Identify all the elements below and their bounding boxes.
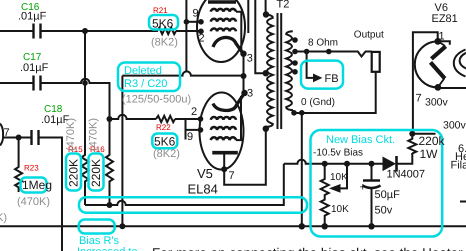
svg-text:7: 7 xyxy=(229,170,235,182)
svg-text:-10.5v Bias: -10.5v Bias xyxy=(313,148,363,159)
node cathode upper pin3 xyxy=(240,51,246,57)
node primary top xyxy=(263,11,269,17)
svg-text:R21: R21 xyxy=(153,6,168,15)
wire deleted component column xyxy=(121,76,123,227)
grid g3 upper xyxy=(211,9,236,12)
transformer T2 primary winding xyxy=(266,15,273,127)
svg-text:10K: 10K xyxy=(330,172,348,183)
svg-text:Output: Output xyxy=(354,30,384,41)
capacitor C16 xyxy=(34,24,41,39)
node gnd riser top xyxy=(299,110,305,116)
node output junction xyxy=(326,49,332,55)
svg-text:9: 9 xyxy=(193,8,199,20)
transformer T2 secondary winding xyxy=(286,31,293,110)
node wiper rail xyxy=(344,161,350,167)
node tap 8ohm xyxy=(292,49,298,55)
capacitor 50uF xyxy=(371,164,373,180)
svg-text:For more on connecting the bia: For more on connecting the bias ckt, see… xyxy=(152,246,463,251)
svg-text:(8K2): (8K2) xyxy=(151,37,178,49)
node primary center tap xyxy=(263,70,269,76)
node pin2 upper xyxy=(198,29,204,35)
EZ81 plate 1 stub xyxy=(438,41,445,46)
highlight bias Rs segment xyxy=(79,220,115,234)
wire B+ EZ81 pin1 to 220k xyxy=(413,32,438,134)
grid g1 lower xyxy=(211,117,236,120)
svg-text:220k: 220k xyxy=(419,134,446,148)
wire R22 to pin2 lower xyxy=(175,118,201,120)
wire R21 to pin2 xyxy=(176,30,201,32)
svg-text:300v: 300v xyxy=(443,120,466,132)
svg-text:10K: 10K xyxy=(331,204,349,215)
plate upper xyxy=(208,0,236,4)
node C17 column junction xyxy=(82,80,88,86)
cathode upper xyxy=(213,37,243,53)
svg-text:(470K): (470K) xyxy=(88,118,100,151)
node EZ81 plate pin1 xyxy=(434,38,441,45)
svg-text:R3 / C20: R3 / C20 xyxy=(124,78,167,90)
wire deleted R3 C20 to cathode node xyxy=(122,71,243,75)
node pin7 lower xyxy=(221,166,227,172)
svg-text:1: 1 xyxy=(439,31,445,43)
tube V5 envelope lower xyxy=(200,93,244,170)
wire bias rail xyxy=(284,160,352,164)
node grid2 junction xyxy=(107,116,113,122)
wire g3 to cathode upper xyxy=(236,12,241,53)
node pin9 lower xyxy=(198,127,204,133)
node screen junction upper xyxy=(184,19,190,25)
svg-text:7: 7 xyxy=(4,127,10,139)
svg-text:0 (Gnd): 0 (Gnd) xyxy=(301,97,335,108)
box 5K6 R22 xyxy=(152,134,177,149)
resistor R21 xyxy=(157,28,176,34)
left edge tube V? envelope xyxy=(0,124,3,146)
grid g1 upper xyxy=(211,28,236,31)
svg-text:220K: 220K xyxy=(67,159,81,187)
svg-text:R23: R23 xyxy=(24,164,39,173)
node cathode lower pin3 xyxy=(241,90,247,96)
wire plate lower to primary bottom xyxy=(224,129,266,185)
wire EZ81 pin7 out xyxy=(438,86,466,89)
wire jack sleeve to 0 tap xyxy=(294,72,376,113)
svg-text:(8K2): (8K2) xyxy=(153,148,180,160)
wire grid2 with hop over deleted column xyxy=(110,115,157,119)
wire EZ81 pin1 heater xyxy=(438,41,450,45)
capacitor C18 xyxy=(32,130,39,145)
node deleted column ground xyxy=(119,223,125,229)
wire center tap feed xyxy=(255,0,265,73)
resistor R16 220K column xyxy=(106,119,113,205)
svg-text:Filam: Filam xyxy=(451,160,466,172)
wire screen upper pin9 xyxy=(186,21,201,23)
EZ81 plate 2 stub xyxy=(438,78,444,87)
svg-text:(470K): (470K) xyxy=(17,196,50,208)
box new bias ckt xyxy=(311,130,443,237)
resistor R15 220K column xyxy=(82,31,89,205)
svg-text:.01µF: .01µF xyxy=(18,11,47,23)
svg-text:2: 2 xyxy=(199,33,205,45)
highlight bias wire xyxy=(79,197,307,212)
wire C16 input xyxy=(0,30,33,32)
transformer core xyxy=(277,13,279,129)
EZ81 plate 1 xyxy=(431,46,445,59)
svg-text:300v: 300v xyxy=(425,97,449,109)
svg-text:Increased to: Increased to xyxy=(77,246,138,251)
box 1Meg R23 xyxy=(21,178,47,193)
wire C18 input from left tube pin7 xyxy=(3,137,31,139)
wire C18 to ground bus and bottom xyxy=(39,138,63,251)
resistor R23 xyxy=(15,138,22,193)
svg-text:8 Ohm: 8 Ohm xyxy=(308,38,338,49)
svg-text:220K: 220K xyxy=(89,159,103,187)
node cap takeoff xyxy=(369,161,375,167)
node pin9 upper xyxy=(198,19,204,25)
node gnd riser bottom xyxy=(299,223,305,229)
svg-text:1Meg: 1Meg xyxy=(22,178,52,192)
resistor 10K lower xyxy=(321,197,329,227)
wire C17 to corner with hop over 220K column xyxy=(41,79,110,119)
node EZ81 pin7 xyxy=(435,84,442,91)
svg-text:New Bias Ckt.: New Bias Ckt. xyxy=(326,134,395,146)
node cap ground xyxy=(368,223,374,229)
svg-text:V5: V5 xyxy=(197,166,213,181)
node tap 0 gnd xyxy=(291,110,297,116)
svg-text:5K6: 5K6 xyxy=(152,17,174,31)
wire FB arrow xyxy=(307,52,314,78)
capacitor C17 xyxy=(34,76,41,91)
pot wiper arrow xyxy=(340,164,347,189)
node C18 junction R23 xyxy=(16,135,22,141)
node tap FB xyxy=(292,69,298,75)
grid g2 lower xyxy=(211,127,236,130)
box 220K R15 xyxy=(66,154,81,191)
svg-text:9: 9 xyxy=(187,131,193,143)
node tap 4ohm xyxy=(292,60,298,66)
svg-text:Deleted: Deleted xyxy=(124,65,162,77)
wire 300v tick xyxy=(412,133,435,135)
wire gnd riser xyxy=(301,113,303,227)
wire 8 ohm to output xyxy=(293,52,372,57)
cathode lower xyxy=(213,95,244,111)
node bias feed R16 xyxy=(107,202,113,208)
svg-text:3: 3 xyxy=(247,53,253,65)
svg-text:(470K): (470K) xyxy=(0,212,7,224)
node 220k top xyxy=(409,131,415,137)
box deleted R3 C20 xyxy=(118,63,180,92)
node FB takeoff xyxy=(304,49,310,55)
output jack xyxy=(372,52,380,72)
svg-text:(470K): (470K) xyxy=(65,118,77,151)
tube V4 envelope upper xyxy=(197,0,245,62)
svg-text:1N4007: 1N4007 xyxy=(387,169,426,181)
tube V6 heater arc xyxy=(460,53,466,69)
tube V6 right glass arc xyxy=(454,50,466,77)
wire heater right edge xyxy=(460,201,466,203)
svg-text:3: 3 xyxy=(247,88,253,100)
wire pin9 strap lower xyxy=(186,119,201,140)
grid g2 upper xyxy=(211,19,236,22)
svg-text:50µF: 50µF xyxy=(375,189,401,201)
svg-text:1W: 1W xyxy=(420,147,439,161)
plate lower xyxy=(212,151,238,155)
box 220K R16 xyxy=(89,154,104,191)
svg-text:R22: R22 xyxy=(156,123,171,132)
node pot ground xyxy=(322,223,328,229)
resistor R22 xyxy=(156,116,175,122)
svg-text:T2: T2 xyxy=(277,0,290,11)
wire C16 to R21 xyxy=(41,30,159,32)
svg-text:EZ81: EZ81 xyxy=(432,13,458,25)
wire g3 to cathode lower xyxy=(236,96,241,140)
wire plate feed primary top xyxy=(265,0,267,15)
node pot top xyxy=(322,161,328,167)
svg-text:.01µF: .01µF xyxy=(20,62,49,74)
svg-text:7: 7 xyxy=(416,93,422,105)
node grid1 upper junction xyxy=(82,28,88,34)
box 5K6 R21 xyxy=(149,15,178,30)
node cathode mid xyxy=(241,73,247,79)
svg-text:(125/50-500u): (125/50-500u) xyxy=(122,94,191,106)
svg-text:FB: FB xyxy=(325,73,339,85)
wire short top B xyxy=(247,0,249,33)
EZ81 plate 2 xyxy=(431,62,445,78)
diode D 1N4007 xyxy=(352,153,412,164)
potentiometer 10K upper xyxy=(321,164,329,197)
box FB xyxy=(301,61,343,89)
svg-text:5K6: 5K6 xyxy=(154,135,176,149)
wire C17 input xyxy=(0,82,33,84)
node tap 16ohm xyxy=(292,37,298,43)
tube V6 EZ81 envelope xyxy=(415,41,438,87)
wire bias feed highlighted xyxy=(85,164,284,205)
svg-text:+: + xyxy=(360,182,366,194)
svg-text:2: 2 xyxy=(191,106,197,118)
node primary bottom xyxy=(263,126,269,132)
node pin2 lower xyxy=(198,116,204,122)
resistor 220k 1W xyxy=(408,134,416,154)
wire cathode bus xyxy=(243,54,245,93)
ground bus xyxy=(0,225,466,227)
svg-text:EL84: EL84 xyxy=(188,182,218,197)
svg-text:50v: 50v xyxy=(375,205,393,217)
wire screen B+ riser upper xyxy=(185,0,187,73)
grid g3 lower xyxy=(211,137,236,140)
